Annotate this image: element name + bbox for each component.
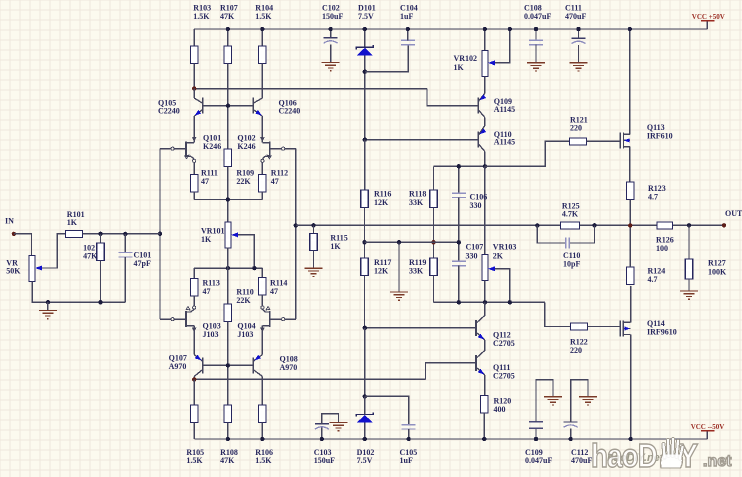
svg-text:47: 47 bbox=[203, 287, 211, 296]
svg-text:1K: 1K bbox=[201, 235, 212, 244]
svg-text:IRF610: IRF610 bbox=[647, 132, 673, 141]
svg-text:47K: 47K bbox=[220, 456, 235, 465]
svg-text:330: 330 bbox=[466, 251, 478, 260]
svg-text:4.7: 4.7 bbox=[648, 275, 658, 284]
svg-text:VCC --50V: VCC --50V bbox=[691, 423, 725, 431]
svg-text:47K: 47K bbox=[220, 12, 235, 21]
svg-text:A1145: A1145 bbox=[494, 105, 515, 114]
svg-text:12K: 12K bbox=[374, 267, 389, 276]
svg-text:50K: 50K bbox=[6, 267, 21, 276]
svg-text:VR102: VR102 bbox=[454, 54, 478, 63]
svg-text:C2705: C2705 bbox=[493, 339, 515, 348]
svg-text:VR103: VR103 bbox=[493, 243, 517, 252]
svg-text:1.5K: 1.5K bbox=[255, 12, 272, 21]
svg-text:R127: R127 bbox=[708, 259, 726, 268]
svg-text:33K: 33K bbox=[409, 198, 424, 207]
svg-text:220: 220 bbox=[570, 123, 582, 132]
svg-text:1K: 1K bbox=[330, 242, 341, 251]
svg-text:100K: 100K bbox=[708, 268, 727, 277]
svg-text:330: 330 bbox=[470, 201, 482, 210]
svg-text:220: 220 bbox=[570, 346, 582, 355]
svg-text:C107: C107 bbox=[466, 243, 484, 252]
svg-text:7.5V: 7.5V bbox=[358, 12, 374, 21]
svg-text:4.7K: 4.7K bbox=[562, 210, 579, 219]
svg-text:C2240: C2240 bbox=[279, 107, 301, 116]
svg-text:K246: K246 bbox=[237, 142, 255, 151]
svg-text:47K: 47K bbox=[83, 251, 98, 260]
svg-text:0.047uF: 0.047uF bbox=[524, 12, 551, 21]
svg-text:470uF: 470uF bbox=[571, 456, 592, 465]
svg-text:47pF: 47pF bbox=[134, 259, 151, 268]
svg-text:A970: A970 bbox=[169, 362, 187, 371]
svg-text:1.5K: 1.5K bbox=[255, 456, 272, 465]
svg-text:22K: 22K bbox=[236, 177, 251, 186]
svg-text:4.7: 4.7 bbox=[648, 193, 658, 202]
svg-text:IN: IN bbox=[5, 217, 14, 226]
svg-text:VCC +50V: VCC +50V bbox=[692, 13, 725, 21]
svg-text:22K: 22K bbox=[236, 296, 251, 305]
svg-text:47: 47 bbox=[201, 177, 209, 186]
svg-text:J103: J103 bbox=[237, 330, 253, 339]
svg-text:150uF: 150uF bbox=[314, 456, 335, 465]
svg-text:100: 100 bbox=[656, 244, 668, 253]
svg-text:47: 47 bbox=[271, 177, 279, 186]
svg-text:K246: K246 bbox=[203, 142, 221, 151]
svg-text:1K: 1K bbox=[67, 218, 78, 227]
svg-text:C2240: C2240 bbox=[158, 107, 180, 116]
svg-text:1uF: 1uF bbox=[400, 456, 413, 465]
svg-text:1K: 1K bbox=[454, 63, 465, 72]
svg-text:A1145: A1145 bbox=[494, 138, 515, 147]
svg-text:haoD: haoD bbox=[591, 438, 657, 475]
svg-text:J103: J103 bbox=[203, 330, 219, 339]
svg-text:470uF: 470uF bbox=[565, 12, 586, 21]
svg-text:1uF: 1uF bbox=[400, 12, 413, 21]
svg-text:150uF: 150uF bbox=[322, 12, 343, 21]
svg-text:1.5K: 1.5K bbox=[193, 12, 210, 21]
svg-text:0.047uF: 0.047uF bbox=[525, 456, 552, 465]
svg-text:47: 47 bbox=[270, 287, 278, 296]
svg-text:OUT: OUT bbox=[725, 209, 742, 218]
svg-text:7.5V: 7.5V bbox=[357, 456, 373, 465]
svg-text:2K: 2K bbox=[493, 251, 504, 260]
svg-text:12K: 12K bbox=[374, 198, 389, 207]
svg-text:10pF: 10pF bbox=[563, 260, 580, 269]
svg-text:.net: .net bbox=[703, 453, 732, 470]
svg-text:33K: 33K bbox=[409, 267, 424, 276]
svg-text:IRF9610: IRF9610 bbox=[647, 328, 677, 337]
svg-text:1.5K: 1.5K bbox=[186, 456, 203, 465]
svg-text:C2705: C2705 bbox=[493, 372, 515, 381]
svg-text:A970: A970 bbox=[280, 363, 298, 372]
svg-text:400: 400 bbox=[494, 405, 506, 414]
